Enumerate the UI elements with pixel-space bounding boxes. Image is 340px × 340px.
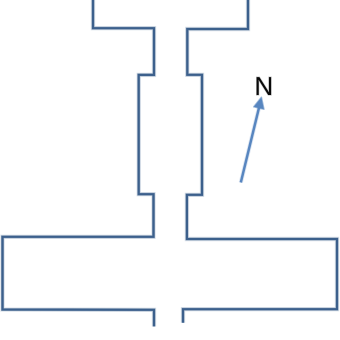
left corridor outline halo [3,0,155,327]
north arrow shaft halo [241,104,260,183]
north arrow shaft [241,104,260,183]
north arrowhead [254,97,264,109]
right corridor outline [183,0,337,323]
right corridor outline halo [183,0,337,323]
label N halo [257,77,272,95]
left corridor outline [3,0,155,327]
label N [257,77,272,95]
